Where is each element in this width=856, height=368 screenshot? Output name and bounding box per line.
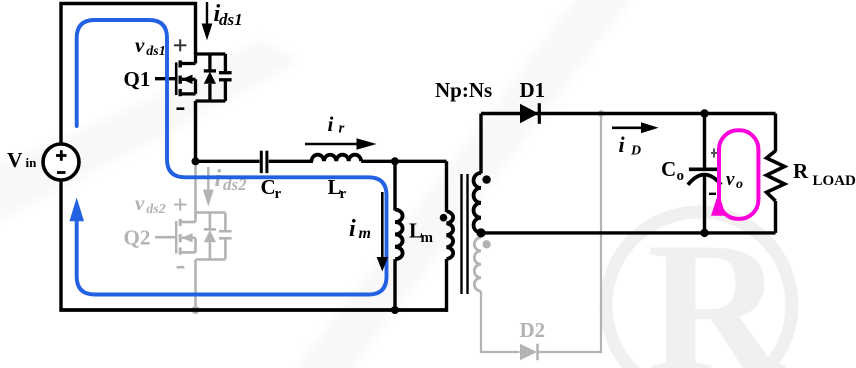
current arrow i_r <box>305 138 377 149</box>
svg-text:C: C <box>661 157 676 181</box>
wire Cr to Lr <box>269 160 313 163</box>
svg-text:o: o <box>677 168 685 184</box>
watermark circled R <box>606 204 792 368</box>
svg-text:i: i <box>619 132 626 157</box>
wire Q2 drain (gray) <box>194 161 197 212</box>
label - for Co <box>709 193 716 195</box>
wire Q2 source to bottom rail (gray) <box>194 260 197 311</box>
capacitor Cr <box>261 151 267 173</box>
wire Lm branch bottom <box>393 259 396 310</box>
wire D1 rail <box>481 112 776 115</box>
svg-text:r: r <box>339 121 345 137</box>
inductor Lr <box>312 155 362 162</box>
label - for v_ds1 <box>177 107 185 110</box>
magenta loop vo <box>719 130 758 219</box>
wire top rail <box>61 4 196 144</box>
svg-text:m: m <box>359 225 371 242</box>
resistor R_LOAD <box>767 114 785 233</box>
transformer core <box>462 174 468 294</box>
svg-text:ds2: ds2 <box>146 202 165 217</box>
diode D1 <box>520 103 539 124</box>
svg-text:LOAD: LOAD <box>813 173 856 189</box>
svg-text:r: r <box>340 186 347 202</box>
current arrow i_ds1 <box>202 2 213 40</box>
wire bottom rail <box>59 308 446 312</box>
wire Lm branch top <box>393 161 396 210</box>
wire node A to Cr <box>196 160 260 163</box>
polarity dot primary <box>440 214 448 222</box>
junction Co top dot <box>700 109 708 117</box>
wire blue primary current loop <box>77 20 387 295</box>
junction node A dot <box>192 157 200 165</box>
inductor Lm <box>395 210 403 260</box>
svg-text:i: i <box>349 216 356 242</box>
label + for v_ds2 (gray) <box>174 199 186 211</box>
current arrow i_D <box>612 122 659 133</box>
svg-text:D1: D1 <box>520 78 546 102</box>
svg-text:Np:Ns: Np:Ns <box>435 78 492 102</box>
svg-text:D2: D2 <box>520 318 546 342</box>
diode D2 (gray) <box>520 344 538 360</box>
svg-text:o: o <box>736 177 743 192</box>
current arrow i_m (black) <box>377 192 388 272</box>
wire Q1 source down to node A <box>194 101 197 161</box>
svg-text:i: i <box>328 112 334 136</box>
magenta arrowhead <box>711 193 726 216</box>
svg-text:r: r <box>275 186 282 202</box>
current arrow i_ds2 (gray) <box>203 167 214 207</box>
junction Q2 source on bottom rail (gray dot) <box>192 306 200 314</box>
transistor Q2 (gray MOSFET with body diode and capacitor) <box>155 211 232 260</box>
svg-text:D: D <box>630 144 641 159</box>
voltage source Vin <box>43 144 79 180</box>
capacitor Co (polarized) <box>688 114 721 233</box>
junction Co bottom dot <box>700 229 708 237</box>
polarity dot secondary upper <box>482 175 490 183</box>
wire left vertical below Vin <box>59 181 62 311</box>
terminal dot D2 wire on rail (gray) <box>598 110 604 116</box>
svg-text:Q2: Q2 <box>124 226 151 250</box>
wire Lr to primary <box>361 160 446 163</box>
blue arrow up (loop direction) <box>69 198 84 222</box>
svg-text:V: V <box>7 148 23 172</box>
svg-text:Q1: Q1 <box>124 67 151 91</box>
polarity dot secondary lower (gray) <box>482 240 490 248</box>
label - for v_ds2 (gray) <box>177 266 185 269</box>
svg-text:v: v <box>135 191 145 215</box>
transformer primary winding <box>447 161 454 312</box>
svg-text:m: m <box>421 230 434 246</box>
wire D2 cathode up to output rail (gray) <box>538 115 602 353</box>
junction node B dot (Lm tap top) <box>391 157 399 165</box>
svg-text:R: R <box>793 159 809 183</box>
svg-text:ds1: ds1 <box>219 10 243 29</box>
label + for Co <box>711 152 718 154</box>
transistor Q1 (MOSFET with body diode and capacitor) <box>155 53 232 102</box>
label + for v_ds1 <box>174 39 186 51</box>
svg-text:v: v <box>135 33 145 57</box>
junction Lm bottom dot <box>391 306 399 314</box>
svg-text:ds1: ds1 <box>146 44 165 59</box>
junction center tap dot <box>476 228 485 237</box>
transformer secondary upper winding <box>474 114 481 233</box>
svg-text:R: R <box>647 204 786 368</box>
transformer secondary lower winding (gray) <box>474 238 481 292</box>
wire secondary lower to D2 (gray) <box>481 291 520 352</box>
wire output bottom rail <box>481 231 776 234</box>
svg-text:in: in <box>26 155 38 170</box>
svg-text:v: v <box>726 169 735 190</box>
